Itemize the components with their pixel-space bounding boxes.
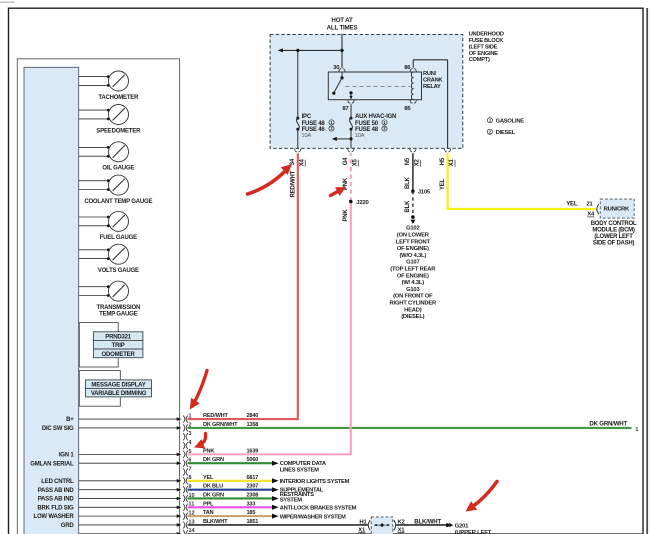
IPC pin 10 connector [183,493,194,502]
svg-text:G201: G201 [455,523,470,529]
svg-text:COMPUTER DATA: COMPUTER DATA [280,461,327,467]
svg-text:RED/WHT: RED/WHT [290,170,296,197]
IPC pin 1 connector [183,414,191,423]
IPC pin 11 connector [183,502,194,511]
svg-text:185: 185 [247,510,256,516]
gauge: transmission temp gauge [79,281,140,317]
svg-text:10A: 10A [355,133,365,139]
svg-text:TRIP: TRIP [112,343,125,349]
annotation arrow to G201 [466,482,498,512]
svg-text:G4: G4 [343,157,349,165]
svg-text:X4: X4 [299,158,305,166]
svg-text:MODULE (BCM): MODULE (BCM) [592,227,635,233]
svg-text:1639: 1639 [247,448,259,454]
svg-text:VOLTS GAUGE: VOLTS GAUGE [98,268,139,274]
svg-text:TRANSMISSION: TRANSMISSION [96,305,140,311]
svg-text:7: 7 [188,466,191,472]
svg-text:SIDE OF DASH): SIDE OF DASH) [593,240,635,246]
svg-text:OF ENGINE): OF ENGINE) [397,273,429,279]
svg-text:RUN/: RUN/ [423,71,437,77]
pin 6 stub wire [79,461,182,465]
in-line connector H1/K2 X1 [358,517,405,534]
instrument panel cluster box (IPC) [17,59,179,534]
svg-text:TEMP GAUGE: TEMP GAUGE [99,311,137,317]
annotation arrow to pin 1 [190,371,207,410]
IPC pin 13 connector [183,519,194,528]
pin 9 stub wire [79,488,182,492]
svg-text:BLK: BLK [405,176,411,189]
svg-text:3: 3 [188,431,191,437]
svg-text:OIL GAUGE: OIL GAUGE [102,166,134,172]
svg-text:BRK FLD SIG: BRK FLD SIG [37,505,74,511]
pin 12 stub wire [79,514,182,518]
svg-text:6817: 6817 [247,475,259,481]
svg-text:FUSE BLOCK: FUSE BLOCK [469,38,505,44]
svg-text:2840: 2840 [247,413,259,419]
svg-text:87: 87 [342,106,349,112]
gauge: volts gauge [79,244,139,274]
gauge: coolant temp gauge [79,175,153,205]
annotation arrow to PNK wire [331,187,346,196]
svg-text:G103: G103 [406,287,420,293]
IPC pin 7 connector [183,466,191,475]
svg-text:SYSTEM: SYSTEM [280,497,303,503]
splice J220 [349,200,370,206]
underhood fuse block (dashed) [270,35,463,149]
IPC internal blue block [24,67,79,534]
wire DK GRN 5060 (pin 6) to computer data lines [188,457,327,473]
svg-text:LEFT FRONT: LEFT FRONT [396,239,431,245]
svg-text:21: 21 [586,202,593,208]
svg-text:G107: G107 [406,260,419,266]
wire YEL 6817 (pin 8) to interior lights [188,475,350,485]
svg-text:LOW WASHER: LOW WASHER [34,514,75,520]
svg-text:BLK: BLK [405,200,411,213]
svg-text:YEL: YEL [440,178,446,190]
wire TAN 185 (pin 12) to wiper/washer [188,510,346,520]
exit connector X1 pin H5 [440,149,455,167]
IPC pin 2 connector [183,422,191,431]
svg-text:ALL TIMES: ALL TIMES [327,24,358,31]
svg-text:VARIABLE DIMMING: VARIABLE DIMMING [91,391,147,397]
svg-text:OF ENGINE: OF ENGINE [469,51,498,57]
svg-text:H1: H1 [359,519,367,525]
gauge: oil gauge [79,142,135,172]
gauge: speedometer [79,105,141,135]
BCM connector [597,204,599,213]
svg-text:5060: 5060 [247,457,259,463]
svg-text:1358: 1358 [247,422,259,428]
pin 10 stub wire [79,497,182,501]
pin 5 stub wire [79,453,182,457]
svg-text:YEL: YEL [566,202,578,208]
wire relay 87 to AUX fuse [350,104,352,117]
svg-text:10A: 10A [301,133,311,139]
IPC pin 12 connector [183,511,194,520]
svg-text:HEAD): HEAD) [404,307,422,313]
svg-text:OF ENGINE): OF ENGINE) [397,246,429,252]
svg-text:DK GRN: DK GRN [203,492,224,498]
svg-text:SPEEDOMETER: SPEEDOMETER [96,128,141,134]
IPC pin 14 connector [183,528,195,534]
relay pin 87 [342,100,354,112]
wire PNK 1639 (pin 5) [188,153,351,455]
svg-text:IGN 1: IGN 1 [59,452,75,458]
svg-text:PASS AB IND: PASS AB IND [38,497,75,503]
wire AUX fuse to exit [350,129,352,148]
wire DK GRN 2308 (pin 10) [188,492,279,501]
svg-text:RUN/CRK: RUN/CRK [604,206,630,212]
IPC pin 9 connector [183,484,191,493]
pin 14 stub wire [79,532,182,534]
wire relay 86 to exit X1 [413,60,447,149]
svg-text:WIPER/WASHER SYSTEM: WIPER/WASHER SYSTEM [280,514,346,520]
svg-text:PRND321: PRND321 [105,335,131,341]
svg-text:H5: H5 [440,157,446,165]
wire BLK/WHT to G201 [396,518,445,525]
svg-text:(DIESEL): (DIESEL) [401,314,424,320]
underhood fuse block label [469,31,505,63]
wire DK BLU 2307 (pin 9) to supplemental restraints [188,484,324,504]
svg-text:GMLAN SERIAL: GMLAN SERIAL [30,461,74,467]
fuse IPC FUSE 48/46 10A [296,114,334,139]
wire RED/WHT 2840 (pin 1) [188,153,298,420]
svg-text:PNK: PNK [343,209,349,222]
svg-text:FUEL GAUGE: FUEL GAUGE [100,235,137,241]
svg-text:BODY CONTROL: BODY CONTROL [591,221,637,227]
svg-text:AUX HVAC-IGN: AUX HVAC-IGN [355,114,396,120]
svg-text:UNDERHOOD: UNDERHOOD [469,31,504,37]
relay actuation dashed link [346,85,411,87]
svg-text:34: 34 [290,158,296,165]
relay pin 86 [404,65,416,71]
gauge: fuel gauge [79,211,137,241]
svg-text:CRANK: CRANK [423,78,443,84]
svg-text:J105: J105 [418,190,431,196]
svg-text:LINES SYSTEM: LINES SYSTEM [280,468,319,474]
wire PPL 333 (pin 11) to anti-lock brakes [188,501,357,511]
annotation arrow to RED/WHT wire [248,164,293,194]
pin 2 stub wire [79,426,182,430]
svg-text:RELAY: RELAY [423,84,441,90]
svg-text:DK GRN/WHT: DK GRN/WHT [203,422,238,428]
exit connector X5 pin G4 [343,149,358,167]
svg-text:(TOP LEFT REAR: (TOP LEFT REAR [390,267,436,273]
wire DK GRN/WHT 1358 (pin 2) [188,420,640,433]
wire 14 stub [188,533,644,534]
svg-text:G102: G102 [406,226,419,232]
exit connector X2 pin N5 [405,149,420,167]
svg-text:FUSE 50: FUSE 50 [355,121,379,127]
wire IPC fuse to exit [297,129,299,148]
relay coil [411,72,413,100]
exit connector X4 pin 34 [290,149,306,167]
svg-text:X1: X1 [449,158,455,166]
svg-text:RIGHT CYLINDER: RIGHT CYLINDER [390,301,437,307]
svg-text:PNK: PNK [203,448,214,454]
svg-text:30: 30 [333,65,340,71]
pin 11 stub wire [79,506,182,510]
pin 13 stub wire [79,523,182,527]
ground G201 [445,523,491,534]
svg-text:ODOMETER: ODOMETER [102,352,136,358]
svg-text:GRD: GRD [61,523,75,529]
legend gasoline/diesel [487,118,524,137]
splice J105 [411,189,431,195]
svg-text:333: 333 [247,501,256,507]
svg-text:X5: X5 [352,158,358,166]
svg-text:B+: B+ [66,417,74,423]
svg-text:IPC: IPC [302,114,312,120]
svg-text:2308: 2308 [247,492,259,498]
svg-text:TAN: TAN [203,510,214,516]
svg-text:RED/WHT: RED/WHT [203,413,228,419]
svg-text:COMPT): COMPT) [469,57,490,63]
svg-text:85: 85 [404,106,411,112]
svg-text:(LEFT SIDE: (LEFT SIDE [469,44,498,50]
IPC pin 6 connector [183,458,191,467]
wire YEL to BCM [440,153,596,217]
svg-text:FUSE 48: FUSE 48 [302,121,326,127]
svg-text:PASS AB IND: PASS AB IND [38,488,75,494]
fuse AUX HVAC-IGN FUSE 50/48 10A [350,114,397,139]
svg-text:J220: J220 [356,200,369,206]
message display bracket [79,371,120,407]
ground G102/G107/G103 [390,215,437,320]
pin 1 stub wire [79,417,182,421]
wire BLK/WHT 1851 (pin 13) [188,519,369,525]
hot bus with left arrow [278,48,342,52]
svg-text:(W/ 4.3L): (W/ 4.3L) [402,280,425,286]
svg-text:(UPPER LEFT: (UPPER LEFT [455,530,492,534]
IPC pin 3 connector [183,431,191,440]
svg-text:LED CNTRL: LED CNTRL [41,479,74,485]
svg-text:ANTI-LOCK BRAKES SYSTEM: ANTI-LOCK BRAKES SYSTEM [280,506,357,512]
svg-text:N5: N5 [405,157,411,165]
svg-text:INTERIOR LIGHTS SYSTEM: INTERIOR LIGHTS SYSTEM [280,479,350,485]
IPC pin 8 connector [183,475,191,484]
relay pin 85 [404,100,416,112]
svg-text:FUSE 48: FUSE 48 [355,127,379,133]
IPC fuse drop wire [297,50,299,117]
PRND321/TRIP/ODOMETER bracket [79,323,118,367]
IPC pin 4 connector [183,440,192,449]
IPC pin 5 connector [183,449,191,458]
svg-text:2307: 2307 [247,484,259,490]
svg-text:YEL: YEL [203,475,214,481]
svg-text:FUSE 46: FUSE 46 [302,127,326,133]
svg-text:COOLANT TEMP GAUGE: COOLANT TEMP GAUGE [84,199,152,205]
MESSAGE DISPLAY / VARIABLE DIMMING box [85,380,151,397]
HOT AT ALL TIMES label [327,17,358,31]
svg-text:GASOLINE: GASOLINE [496,119,525,125]
svg-text:(ON LOWER: (ON LOWER [397,233,430,239]
svg-text:TACHOMETER: TACHOMETER [98,95,139,101]
wire BLK dashed to ground [405,191,413,216]
svg-text:1851: 1851 [247,519,259,525]
RUN/CRANK RELAY label [423,71,443,90]
svg-text:DK BLU: DK BLU [203,484,223,490]
svg-text:(ON FRONT OF: (ON FRONT OF [393,294,433,300]
svg-text:PPL: PPL [203,501,214,507]
svg-text:DK GRN/WHT: DK GRN/WHT [589,420,627,427]
svg-text:X2: X2 [415,158,421,166]
relay RUN/CRANK box [328,72,421,100]
svg-text:MESSAGE DISPLAY: MESSAGE DISPLAY [91,383,145,389]
PRND321 / TRIP / ODOMETER display box [93,332,142,358]
pin 8 stub wire [79,479,182,483]
relay pin 30 [333,65,345,71]
svg-text:DIC SW SIG: DIC SW SIG [42,426,74,432]
BCM label [591,221,637,247]
relay switch contacts [332,72,352,100]
svg-text:86: 86 [404,65,411,71]
svg-text:HOT AT: HOT AT [331,17,353,24]
svg-text:BLK/WHT: BLK/WHT [203,519,228,525]
hot feed wire into block [340,34,343,68]
svg-text:(W/O 4.3L): (W/O 4.3L) [399,253,426,259]
svg-text:(LOWER LEFT: (LOWER LEFT [594,234,633,240]
wire BLK to J105 [405,153,413,191]
annotation arrow to pin 5 [194,434,206,449]
gauge: tachometer [79,71,139,101]
branch with left arrow from AUX fuse [332,137,353,141]
svg-text:BLK/WHT: BLK/WHT [414,518,441,525]
body control module RUN/CRK box [600,199,634,218]
svg-text:DIESEL: DIESEL [496,130,516,136]
svg-text:DK GRN: DK GRN [203,457,224,463]
